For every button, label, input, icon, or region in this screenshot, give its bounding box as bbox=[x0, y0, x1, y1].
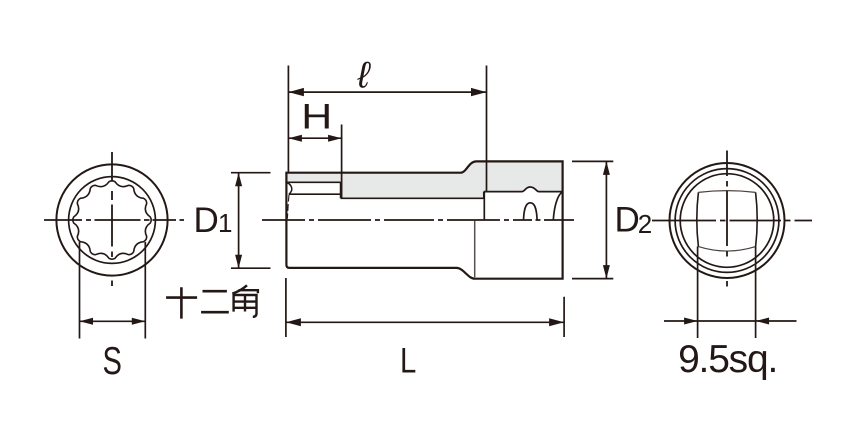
svg-text:L: L bbox=[400, 342, 416, 381]
svg-text:9.5sq.: 9.5sq. bbox=[678, 338, 777, 381]
svg-text:S: S bbox=[103, 340, 122, 383]
svg-text:D: D bbox=[194, 201, 219, 240]
svg-text:ℓ: ℓ bbox=[357, 55, 372, 96]
svg-text:2: 2 bbox=[638, 209, 652, 239]
svg-text:D: D bbox=[615, 201, 640, 240]
svg-text:1: 1 bbox=[218, 208, 232, 238]
svg-text:H: H bbox=[301, 98, 332, 137]
